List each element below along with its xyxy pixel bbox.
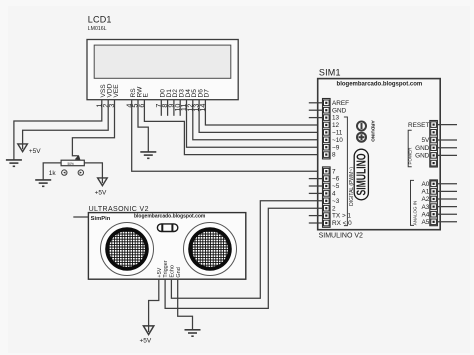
svg-text:D7: D7: [204, 89, 211, 98]
wire pot left terminal to ground: [43, 163, 61, 180]
svg-text:+5V: +5V: [157, 267, 163, 277]
svg-text:A1: A1: [421, 189, 429, 196]
power +5V (VDD): [18, 144, 28, 152]
svg-text:Echo: Echo: [170, 265, 176, 278]
ultrasonic sensor body: [88, 213, 245, 280]
crystal capsule: [157, 224, 177, 232]
wire sensor Trigger to SIM1 pin2: [165, 208, 322, 308]
stub wire 13: [309, 117, 323, 119]
wire sensor +5V to power arrow: [149, 279, 159, 332]
wire sensor Echo to SIM1 pin3: [171, 201, 322, 298]
left transducer mesh: [109, 231, 145, 267]
svg-text:50%: 50%: [68, 162, 75, 166]
svg-text:LM016L: LM016L: [88, 26, 107, 32]
svg-text:blogembarcado.blogspot.com: blogembarcado.blogspot.com: [337, 82, 423, 88]
power bracket: [408, 130, 412, 167]
power header strip: [430, 121, 438, 168]
wire pot right terminal to +5V: [84, 163, 102, 183]
stub wire TX1: [309, 215, 323, 217]
digital bracket: [344, 117, 348, 226]
svg-text:12: 12: [332, 122, 340, 129]
stub wire AREF: [309, 102, 323, 104]
stub wire RX0: [309, 222, 323, 224]
svg-text:SimPin: SimPin: [91, 216, 111, 222]
stub wire A3: [437, 206, 457, 208]
wire D7 pin14 to SIM1 pin12: [205, 100, 322, 125]
simulino logo capsule: [354, 149, 368, 200]
svg-text:8: 8: [332, 152, 336, 159]
wire VSS pin1 to ground: [14, 100, 102, 160]
svg-text:GND: GND: [332, 107, 347, 114]
stub wire ~5: [309, 185, 323, 187]
left header pin dots: [325, 102, 327, 224]
svg-text:ULTRASONIC V2: ULTRASONIC V2: [89, 206, 149, 213]
right transducer mesh: [192, 231, 228, 267]
left header pin squares: [324, 100, 330, 226]
svg-text:E: E: [143, 93, 150, 98]
arduino SIM1 board body: [318, 79, 441, 230]
svg-text:Trigger: Trigger: [163, 260, 169, 277]
stub wire A5: [437, 221, 457, 223]
svg-text:+5V: +5V: [140, 338, 152, 345]
svg-text:VEE: VEE: [113, 84, 120, 98]
digital header strip upper: [323, 99, 331, 159]
stub wire GND: [309, 109, 323, 111]
potentiometer increment button: [78, 170, 83, 175]
stub wire A2: [437, 198, 457, 200]
svg-text:A3: A3: [421, 204, 429, 211]
svg-text:blogembarcado.blogspot.com: blogembarcado.blogspot.com: [134, 214, 206, 220]
right transducer outer ring: [184, 223, 237, 276]
ground (pot): [35, 180, 51, 186]
analog bracket: [411, 180, 415, 225]
stub wire 4: [309, 192, 323, 194]
stub wire GND: [437, 147, 457, 149]
stub wire ~6: [309, 178, 323, 180]
potentiometer decrement button: [62, 170, 67, 175]
svg-text:Gnd: Gnd: [176, 267, 182, 277]
analog header strip: [430, 180, 438, 226]
svg-text:TX > 1: TX > 1: [332, 213, 351, 220]
wire VEE pin3 to potentiometer wiper: [72, 100, 114, 158]
arduino logo minus circle: [357, 122, 366, 131]
left transducer outer ring: [101, 223, 154, 276]
svg-text:1k: 1k: [49, 170, 57, 177]
svg-text:RX < 0: RX < 0: [332, 220, 352, 227]
potentiometer RV1 1k body: [61, 160, 84, 166]
arduino logo plus circle: [357, 133, 366, 142]
wire stub D3 pin10: [179, 100, 181, 116]
svg-text:A5: A5: [421, 219, 429, 226]
svg-text:SIMULINO: SIMULINO: [355, 153, 369, 195]
wire stub D1 pin8: [167, 100, 169, 116]
svg-text:7: 7: [332, 168, 336, 175]
svg-text:LCD1: LCD1: [88, 14, 112, 24]
lcd LCD1 body: [87, 40, 238, 100]
wire VDD pin2 to +5V: [23, 100, 109, 149]
stub wire RESET: [437, 124, 457, 126]
left transducer black disc: [105, 227, 149, 271]
stub wire A1: [437, 190, 457, 192]
wire RS pin4 to SIM1 pin7: [132, 100, 323, 171]
wire D6 pin13 to SIM1 pin11: [199, 100, 322, 132]
digital header strip lower: [323, 167, 331, 227]
power +5V (sensor): [143, 326, 153, 335]
svg-text:~6: ~6: [332, 176, 340, 183]
crystal electrode bars: [161, 224, 163, 231]
stub wire A0: [437, 183, 457, 185]
ground (sensor): [185, 330, 201, 336]
right header pin squares: [431, 122, 437, 225]
svg-text:RESET: RESET: [408, 122, 429, 129]
power +5V (pot): [98, 178, 108, 186]
svg-text:A4: A4: [421, 211, 429, 218]
ground (VSS): [6, 160, 22, 166]
lcd display window: [94, 45, 231, 78]
svg-text:AREF: AREF: [332, 100, 349, 107]
right header pin dots: [433, 124, 435, 223]
svg-text:4: 4: [332, 191, 336, 198]
svg-text:SIMULINO V2: SIMULINO V2: [319, 233, 363, 240]
svg-text:~11: ~11: [332, 130, 343, 137]
svg-text:5V: 5V: [421, 137, 430, 144]
wire D5 pin12 to SIM1 pin10: [193, 100, 323, 140]
wire RW pin5 to ground: [138, 100, 148, 152]
wire sensor Gnd to ground: [178, 279, 193, 330]
stub wire 5V: [437, 139, 457, 141]
svg-text:GND: GND: [415, 153, 430, 160]
svg-text:2: 2: [332, 205, 336, 212]
wire stub D0 pin7: [160, 100, 162, 116]
svg-text:~5: ~5: [332, 183, 340, 190]
right transducer black disc: [188, 227, 232, 271]
svg-text:+5V: +5V: [95, 190, 107, 197]
stub wire GND2: [437, 154, 457, 156]
ground (RW): [140, 152, 156, 158]
svg-text:ARDUINO: ARDUINO: [370, 120, 375, 142]
stub wire A4: [437, 213, 457, 215]
wire E pin6 to SIM1 pin8: [144, 100, 322, 155]
stub wire SimPin: [73, 216, 88, 218]
svg-text:13: 13: [332, 115, 340, 122]
svg-text:ANALOG IN: ANALOG IN: [412, 201, 417, 226]
wire stub D2 pin9: [173, 100, 175, 116]
svg-text:A2: A2: [421, 196, 429, 203]
svg-text:SIM1: SIM1: [319, 67, 341, 77]
svg-text:GND: GND: [415, 145, 430, 152]
svg-text:~9: ~9: [332, 144, 340, 151]
wire D4 pin11 to SIM1 pin9: [187, 100, 323, 147]
svg-text:+5V: +5V: [29, 148, 41, 155]
svg-text:A0: A0: [421, 181, 429, 188]
svg-text:POWER: POWER: [407, 147, 412, 165]
potentiometer wiper arrowhead: [75, 155, 81, 161]
svg-text:~10: ~10: [332, 137, 343, 144]
svg-text:~3: ~3: [332, 198, 340, 205]
